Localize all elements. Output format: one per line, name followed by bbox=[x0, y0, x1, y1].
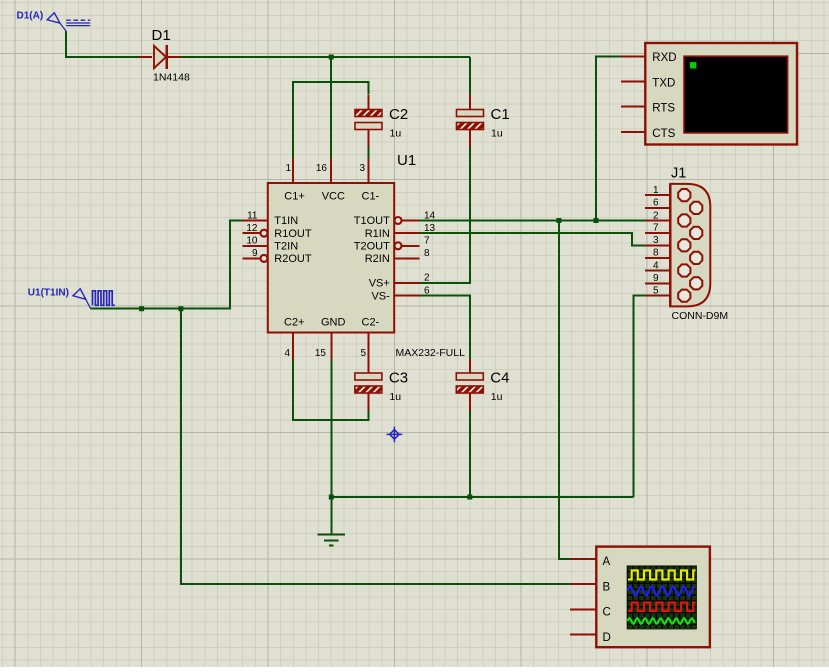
terminal pin RXD stub bbox=[621, 55, 645, 57]
svg-text:7: 7 bbox=[653, 223, 659, 234]
svg-text:MAX232-FULL: MAX232-FULL bbox=[396, 347, 466, 359]
svg-text:3: 3 bbox=[359, 163, 365, 174]
wire: top VCC rail from D1 anode corner to C1 column bbox=[66, 31, 470, 57]
U1 pin 12 R1OUT stub with bubble bbox=[243, 230, 268, 237]
svg-text:C3: C3 bbox=[389, 370, 408, 387]
junction T1OUT net / RXD branch bbox=[594, 218, 599, 223]
wire: U1 pin1 to C2 top (C1+ to cap) bbox=[293, 82, 369, 159]
svg-text:J1: J1 bbox=[671, 166, 686, 182]
wire: VCC rail drop to U1 pin16 bbox=[330, 57, 332, 159]
wire: VS- line to C4 top bbox=[420, 296, 470, 360]
U1 pin 8 R2IN stub bbox=[394, 257, 419, 259]
svg-text:6: 6 bbox=[653, 198, 659, 209]
svg-text:R2OUT: R2OUT bbox=[274, 253, 312, 265]
U1 pin 11 T1IN stub bbox=[243, 220, 268, 222]
wire: branch down to oscilloscope input B bbox=[181, 309, 570, 584]
label C4 bbox=[490, 370, 509, 387]
origin target marker bbox=[387, 427, 403, 443]
oscilloscope pin labels bbox=[603, 556, 611, 644]
svg-text:TXD: TXD bbox=[652, 78, 675, 90]
svg-text:R1IN: R1IN bbox=[365, 228, 390, 240]
svg-text:VS+: VS+ bbox=[369, 278, 390, 290]
svg-text:GND: GND bbox=[321, 316, 346, 328]
U1 pin number labels bbox=[246, 163, 435, 359]
label C1 bbox=[491, 106, 510, 123]
svg-text:6: 6 bbox=[424, 285, 430, 296]
oscilloscope pin D stub bbox=[570, 634, 596, 636]
capacitor C2 bbox=[355, 95, 382, 147]
wire: C2 bottom to U1 pin3 bbox=[368, 145, 370, 159]
wire: C1 top connection down from rail bbox=[469, 57, 471, 96]
svg-text:RTS: RTS bbox=[652, 103, 675, 115]
oscilloscope trace B blue sine bbox=[628, 586, 695, 595]
wire: branch down to oscilloscope input A bbox=[559, 221, 570, 559]
label D1 bbox=[152, 27, 171, 44]
svg-text:D1: D1 bbox=[152, 27, 171, 44]
svg-text:8: 8 bbox=[424, 248, 430, 259]
oscilloscope trace C red square wave bbox=[628, 603, 696, 612]
svg-text:C2-: C2- bbox=[362, 316, 380, 328]
svg-text:U1(T1IN): U1(T1IN) bbox=[28, 288, 69, 299]
U1 top pin 3 stub bbox=[368, 159, 370, 184]
U1 pin name labels bbox=[274, 191, 390, 329]
terminal pin RTS stub bbox=[621, 106, 645, 108]
terminal pin labels bbox=[652, 52, 676, 140]
J1 pin holes bbox=[678, 189, 702, 302]
svg-text:B: B bbox=[603, 581, 611, 593]
connector J1 body bbox=[670, 184, 710, 307]
svg-text:4: 4 bbox=[284, 348, 290, 359]
svg-text:D: D bbox=[603, 632, 611, 644]
svg-text:2: 2 bbox=[424, 273, 430, 284]
junction ground rail / C4 bbox=[467, 495, 472, 500]
oscilloscope screen background bbox=[627, 566, 697, 630]
oscilloscope body bbox=[596, 547, 710, 648]
probe U1(T1IN) cone symbol bbox=[73, 289, 91, 309]
svg-text:C1: C1 bbox=[491, 106, 510, 123]
wire: branch up to terminal RXD bbox=[596, 56, 621, 220]
oscilloscope pin B stub bbox=[570, 583, 596, 585]
U1 pin 9 R2OUT stub with bubble bbox=[243, 255, 268, 262]
terminal pin TXD stub bbox=[621, 81, 645, 83]
svg-text:CONN-D9M: CONN-D9M bbox=[672, 310, 729, 322]
svg-text:T2OUT: T2OUT bbox=[354, 241, 390, 253]
svg-text:C4: C4 bbox=[490, 370, 509, 387]
U1 pin 13 R1IN stub bbox=[394, 232, 419, 234]
oscilloscope trace D green sine bbox=[628, 618, 695, 624]
terminal pin CTS stub bbox=[621, 131, 645, 133]
value 1N4148 bbox=[153, 72, 190, 84]
junction at VCC rail / pin16 bbox=[329, 55, 334, 60]
svg-text:3: 3 bbox=[653, 235, 659, 246]
probe D1(A) DC level icon bbox=[66, 20, 90, 25]
svg-text:VS-: VS- bbox=[371, 290, 390, 302]
virtual terminal cursor bbox=[690, 62, 696, 68]
svg-text:D1(A): D1(A) bbox=[17, 11, 44, 22]
svg-text:C1+: C1+ bbox=[284, 191, 305, 203]
ground bbox=[318, 497, 346, 546]
label C3 bbox=[389, 370, 408, 387]
U1 pin 7 T2OUT stub with bubble bbox=[395, 242, 420, 249]
virtual terminal screen bbox=[684, 56, 788, 133]
svg-text:C2: C2 bbox=[389, 106, 408, 123]
J1 pin stubs bbox=[645, 195, 670, 296]
wire: R1IN net to J1 pin3 bbox=[420, 233, 646, 245]
value CONN-D9M bbox=[672, 310, 729, 322]
oscilloscope pin A stub bbox=[570, 558, 596, 560]
capacitor C4 bbox=[456, 359, 483, 411]
probe U1(T1IN) square-wave generator icon bbox=[93, 291, 115, 306]
U1 top pin 1 stub bbox=[292, 159, 294, 184]
U1 bottom pin 5 stub bbox=[367, 333, 369, 374]
probe U1(T1IN) label bbox=[28, 288, 69, 299]
wire: ground rail bbox=[331, 496, 633, 498]
svg-text:1u: 1u bbox=[390, 128, 402, 140]
wire: T1OUT net to J1 pin2 bbox=[420, 220, 646, 222]
svg-text:1: 1 bbox=[653, 185, 659, 196]
junction ground rail / pin15 stem bbox=[329, 495, 334, 500]
wire: C4 bottom to ground rail bbox=[469, 411, 471, 498]
label J1 bbox=[671, 166, 686, 182]
U1 top pin 16 stub bbox=[330, 159, 332, 184]
junction T1OUT net / oscilloscope A branch bbox=[556, 218, 561, 223]
value 1u bbox=[491, 391, 503, 403]
svg-text:12: 12 bbox=[246, 223, 258, 234]
svg-text:R2IN: R2IN bbox=[365, 253, 390, 265]
svg-text:U1: U1 bbox=[397, 152, 416, 169]
svg-text:T1IN: T1IN bbox=[274, 215, 298, 227]
U1 pin 2 VS+ stub bbox=[394, 282, 420, 284]
U1 pin 14 T1OUT stub with bubble bbox=[395, 217, 420, 224]
svg-text:2: 2 bbox=[653, 210, 659, 221]
value MAX232-FULL bbox=[396, 347, 466, 359]
U1 pin 10 T2IN stub bbox=[243, 245, 268, 247]
svg-text:C: C bbox=[603, 607, 611, 619]
oscilloscope pin C stub bbox=[570, 608, 596, 610]
virtual terminal body bbox=[645, 43, 797, 145]
svg-text:10: 10 bbox=[246, 236, 258, 247]
oscilloscope trace A yellow square wave bbox=[628, 571, 696, 580]
svg-text:13: 13 bbox=[424, 223, 436, 234]
svg-text:A: A bbox=[603, 556, 611, 568]
svg-text:1u: 1u bbox=[389, 391, 401, 403]
U1 bottom pin 15 stub bbox=[330, 333, 332, 360]
value 1u bbox=[491, 128, 503, 140]
capacitor C1 bbox=[457, 95, 484, 147]
svg-text:C1-: C1- bbox=[362, 191, 380, 203]
svg-text:5: 5 bbox=[360, 348, 366, 359]
svg-text:T1OUT: T1OUT bbox=[354, 215, 390, 227]
svg-text:R1OUT: R1OUT bbox=[274, 228, 312, 240]
svg-text:16: 16 bbox=[316, 163, 328, 174]
junction on T1IN probe wire / oscilloscope B branch bbox=[178, 306, 183, 311]
U1 pin 6 VS- stub bbox=[394, 295, 420, 297]
wire: T1IN from probe corner up to U1 pin11 bbox=[91, 221, 243, 309]
svg-text:11: 11 bbox=[247, 210, 258, 221]
probe D1(A) cone symbol bbox=[47, 13, 66, 31]
wire: U1 pin4 (C2+) jog to C3 bottom bbox=[293, 360, 368, 420]
junction on T1IN probe wire (left) bbox=[139, 306, 144, 311]
svg-text:1: 1 bbox=[285, 163, 291, 174]
svg-text:C2+: C2+ bbox=[284, 316, 305, 328]
svg-text:4: 4 bbox=[653, 260, 659, 271]
svg-text:1u: 1u bbox=[491, 128, 503, 140]
svg-text:14: 14 bbox=[424, 210, 436, 221]
svg-text:9: 9 bbox=[653, 273, 659, 284]
wire: C1 bottom down to VS+ line bbox=[420, 145, 470, 283]
svg-text:5: 5 bbox=[653, 286, 659, 297]
label U1 bbox=[397, 152, 416, 169]
probe D1(A) label bbox=[17, 11, 44, 22]
value 1u bbox=[390, 128, 402, 140]
svg-text:VCC: VCC bbox=[322, 191, 345, 203]
value 1u bbox=[389, 391, 401, 403]
label C2 bbox=[389, 106, 408, 123]
svg-text:7: 7 bbox=[424, 236, 430, 247]
wire: U1 pin15 GND down to ground rail bbox=[330, 360, 332, 498]
svg-text:1N4148: 1N4148 bbox=[153, 72, 190, 84]
svg-text:8: 8 bbox=[653, 248, 659, 259]
svg-text:T2IN: T2IN bbox=[274, 241, 298, 253]
capacitor C3 bbox=[355, 359, 382, 411]
diode D1 bbox=[140, 45, 181, 69]
U1 bottom pin 4 stub bbox=[292, 333, 294, 360]
svg-text:CTS: CTS bbox=[652, 128, 675, 140]
IC U1 MAX232 body bbox=[268, 183, 394, 333]
svg-text:1u: 1u bbox=[491, 391, 503, 403]
svg-text:9: 9 bbox=[252, 248, 258, 259]
J1 pin numbers bbox=[653, 185, 659, 297]
svg-text:RXD: RXD bbox=[652, 52, 676, 64]
svg-text:15: 15 bbox=[315, 348, 327, 359]
wire: ground rail up to J1 pin5 bbox=[634, 296, 646, 497]
